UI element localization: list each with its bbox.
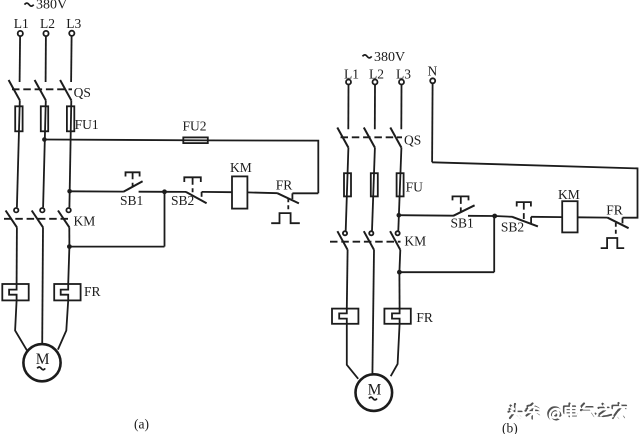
wire FR to right corner <box>292 192 318 194</box>
svg-text:M: M <box>36 351 50 368</box>
switch QS pole 3 blade <box>60 80 71 100</box>
svg-text:L1: L1 <box>344 66 359 81</box>
wire heater2 to motor <box>58 300 68 349</box>
wire heater1 to motor (b) <box>347 324 358 379</box>
contactor KM main contact 2 circle <box>40 208 44 212</box>
svg-text:(b): (b) <box>502 420 518 434</box>
terminal N circle (b) <box>430 78 435 83</box>
wire SB1 to node <box>139 191 165 193</box>
svg-text:L2: L2 <box>40 16 55 31</box>
svg-text:M: M <box>368 381 382 398</box>
pushbutton SB2 fixed contact tick <box>201 192 203 197</box>
switch QS pole 1 blade <box>9 80 20 100</box>
pushbutton SB1 cap <box>126 172 140 176</box>
fuse FU1 pole 3 <box>67 106 74 131</box>
wire phase3 KM to self-hold node <box>68 227 70 246</box>
heater FR element 1 (b) <box>332 309 358 324</box>
wire L3 to QS <box>70 36 73 82</box>
FR actuator dashed stem <box>287 198 289 212</box>
wire heater1 to motor <box>15 300 27 350</box>
fuse FU1 pole 2 <box>41 106 48 131</box>
svg-text:L3: L3 <box>396 66 411 81</box>
svg-text:FR: FR <box>84 284 101 299</box>
svg-text:L3: L3 <box>66 16 81 31</box>
svg-text:SB1: SB1 <box>120 193 143 208</box>
svg-text:QS: QS <box>74 85 91 100</box>
svg-text:FU: FU <box>406 179 424 194</box>
heater FR element 1 <box>2 284 28 300</box>
wire phase3 QS to KM (through fuse) <box>69 100 71 207</box>
fuse FU pole3 (b) <box>397 173 404 196</box>
wire L3 tap to SB1 <box>70 190 124 192</box>
wire phase3 node to heater <box>68 247 69 284</box>
pushbutton SB2 stem dashed (b) <box>523 203 525 219</box>
FR fixed tick (b) <box>622 218 624 224</box>
switch QS pole 2 blade <box>35 80 46 100</box>
relay contact FR blade (NC) <box>278 193 299 203</box>
QS linkage dashed (b) <box>341 136 403 138</box>
wire heater2 to motor (b) <box>391 324 400 376</box>
relay contact FR blade NC (b) <box>608 218 629 229</box>
switch QS pole3 blade (b) <box>390 128 401 148</box>
svg-text:KM: KM <box>230 160 252 175</box>
contactor KM main contact 1 blade <box>6 211 17 228</box>
wire phase2 KM to motor <box>41 227 44 344</box>
node tap L3 to control <box>67 189 72 194</box>
wire tap to SB1 (b) <box>399 214 454 217</box>
switch QS pole2 blade (b) <box>364 128 375 148</box>
coil KM (b) <box>562 201 577 232</box>
svg-text:SB2: SB2 <box>171 193 194 208</box>
pushbutton SB2 fixed tick (b) <box>530 217 532 223</box>
fuse FU pole1 (b) <box>344 173 351 196</box>
node self-hold bottom <box>67 244 72 249</box>
heater FR element 2 (b) <box>384 309 410 324</box>
wire phase3 QS to KM (b) <box>398 148 401 231</box>
wire L3 to QS (b) <box>400 85 402 130</box>
FR fixed contact tick <box>291 193 293 199</box>
node SB1/SB2 junction (b) <box>492 214 497 219</box>
pushbutton SB2 blade (NO) <box>186 192 207 203</box>
wire FU2 to right corner <box>208 140 318 193</box>
svg-text:SB2: SB2 <box>501 219 524 234</box>
wire L2 to QS <box>45 36 47 82</box>
heater FR element 1 jog (b) <box>339 309 347 324</box>
contactor KM contact 1 blade (b) <box>337 231 347 250</box>
svg-text:N: N <box>428 64 438 79</box>
svg-text:FR: FR <box>276 177 293 192</box>
svg-text:L1: L1 <box>14 16 29 31</box>
contactor KM main contact 3 blade <box>58 211 69 228</box>
wire node to SB2 <box>165 191 187 193</box>
terminal L3 circle <box>69 31 74 36</box>
contactor KM main contact 1 circle <box>14 208 18 212</box>
wire node to SB2 (b) <box>495 215 513 218</box>
fuse FU pole2 (b) <box>371 173 378 196</box>
heater FR element 2 wire jog <box>61 284 68 300</box>
node SB1/SB2/self-hold junction <box>162 189 167 194</box>
KM linkage dashed (b) <box>330 241 401 243</box>
svg-text:380V: 380V <box>374 50 405 65</box>
wire tap to FU2 <box>44 139 207 142</box>
wire N down <box>431 83 434 162</box>
wire KM coil to FR (b) <box>578 216 608 218</box>
svg-text:380V: 380V <box>36 0 67 13</box>
svg-text:KM: KM <box>404 233 426 248</box>
wire self-hold vertical (b) <box>493 216 495 272</box>
svg-text:KM: KM <box>74 214 96 229</box>
terminal L2 circle (b) <box>373 80 378 85</box>
wire phase1 KM to heater <box>16 227 18 284</box>
wire L2 to QS (b) <box>374 85 376 130</box>
wire self-hold vertical <box>164 192 166 247</box>
wire phase1 QS to KM (b) <box>346 148 349 231</box>
svg-text:KM: KM <box>558 187 580 202</box>
pushbutton SB1 stem dashed <box>132 173 134 187</box>
wire phase2 QS to KM (b) <box>372 148 375 231</box>
pushbutton SB1 cap (b) <box>453 196 469 200</box>
wire phase1 KM to heater (b) <box>346 250 349 309</box>
motor M (a) tilde <box>37 367 45 370</box>
pushbutton SB1 blade (NC) <box>123 181 142 192</box>
wire N rail to right <box>432 162 637 217</box>
pushbutton SB1 stem dashed (b) <box>460 197 462 212</box>
contactor KM main contact 3 circle <box>66 208 70 212</box>
pushbutton SB2 cap (b) <box>517 202 531 206</box>
heater FR element 2 <box>54 284 80 300</box>
wire phase3 KM to node (b) <box>398 250 401 272</box>
pushbutton SB1 blade NC (b) <box>453 205 474 216</box>
terminal L1 circle (b) <box>346 80 351 85</box>
contactor KM contact 1 circle (b) <box>343 231 347 235</box>
heater FR element 1 wire jog <box>9 284 17 300</box>
svg-text:FR: FR <box>606 202 623 217</box>
wire phase1 QS to KM (through fuse) <box>17 100 20 207</box>
motor M (b) tilde <box>369 397 377 400</box>
wire self-hold horizontal <box>69 246 164 248</box>
heater FR element 2 jog (b) <box>392 309 400 324</box>
wire SB1 to node (b) <box>468 215 495 217</box>
wire phase3 node to heater (b) <box>398 272 400 308</box>
svg-text:(a): (a) <box>134 417 149 432</box>
watermark 头条@电气之家 embossed <box>509 403 627 420</box>
wire phase2 KM to motor (b) <box>372 250 374 375</box>
terminal L1 circle <box>18 31 23 36</box>
contactor KM contact 2 blade (b) <box>364 231 374 250</box>
wire self-hold horizontal (b) <box>399 271 494 273</box>
fuse FU2 <box>183 137 208 143</box>
fuse FU1 pole 1 <box>15 106 22 131</box>
node tap L2 to FU2 <box>42 137 47 142</box>
pushbutton SB2 blade NO (b) <box>513 217 538 227</box>
QS linkage dashed <box>12 88 72 90</box>
label ~380V (a) <box>25 3 34 6</box>
contactor KM contact 3 circle (b) <box>396 231 400 235</box>
KM linkage dashed <box>4 218 71 220</box>
wire L1 to QS <box>19 36 22 82</box>
label ~380V (b) <box>363 55 372 58</box>
svg-text:FR: FR <box>416 310 433 325</box>
FR thermal element symbol (b) <box>601 238 625 248</box>
svg-text:FU2: FU2 <box>183 119 207 134</box>
svg-text:QS: QS <box>404 133 421 148</box>
svg-text:SB1: SB1 <box>451 216 474 231</box>
coil KM (a) <box>232 176 247 208</box>
pushbutton SB2 cap <box>184 177 201 182</box>
switch QS pole1 blade (b) <box>337 128 348 148</box>
FR thermal element symbol <box>271 213 300 223</box>
pushbutton SB2 stem dashed <box>192 178 194 192</box>
FR actuator dashed stem (b) <box>615 223 617 237</box>
contactor KM contact 2 circle (b) <box>369 231 373 235</box>
node self-hold bottom (b) <box>397 270 402 275</box>
wire L1 to QS (b) <box>347 85 349 130</box>
wire SB2 to KM coil <box>202 191 232 193</box>
wire SB2 to KM coil (b) <box>531 216 562 218</box>
wire KM coil to FR <box>247 191 277 194</box>
wire phase2 QS to KM (through fuse) <box>43 100 46 207</box>
contactor KM main contact 2 blade <box>32 211 43 228</box>
motor M (a) circle <box>23 344 60 381</box>
terminal L3 circle (b) <box>399 80 404 85</box>
motor M (b) circle <box>356 374 393 411</box>
terminal L2 circle <box>43 31 48 36</box>
svg-text:FU1: FU1 <box>75 117 99 132</box>
contactor KM contact 3 blade (b) <box>390 231 400 250</box>
node tap L3 to control (b) <box>397 213 402 218</box>
